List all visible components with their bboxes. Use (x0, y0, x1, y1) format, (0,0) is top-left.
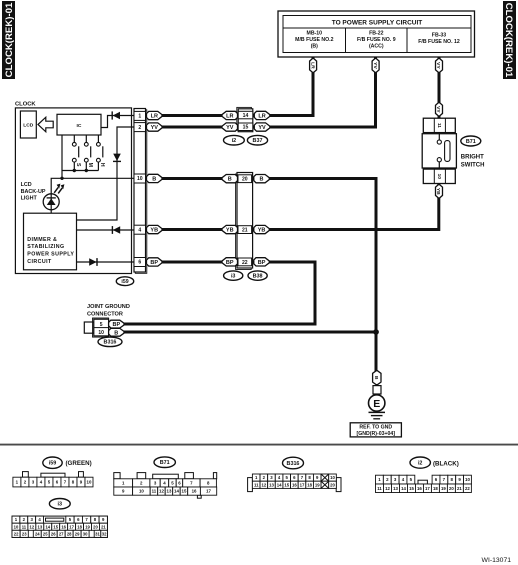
node switch common dots (73, 169, 76, 172)
wire label YB i3 side (222, 225, 238, 233)
wire label B joint connector (109, 328, 124, 336)
bright switch body B71 (422, 133, 456, 170)
bright switch top connector pin 11 (423, 118, 455, 132)
svg-text:30: 30 (83, 531, 88, 536)
wire YV: fuse FB-22 to clock pin 2 (162, 58, 376, 128)
power supply box: TO POWER SUPPLY CIRCUIT (278, 11, 475, 57)
svg-text:B71: B71 (466, 139, 476, 145)
svg-text:19: 19 (441, 486, 446, 491)
svg-text:FB-33: FB-33 (432, 33, 447, 39)
svg-text:22: 22 (14, 531, 19, 536)
wire dimmer to pin6 via diode D4 (77, 261, 135, 263)
wire label BP B38 side (254, 258, 269, 266)
svg-text:S: S (75, 163, 81, 167)
svg-text:10: 10 (139, 489, 144, 494)
svg-text:(BLACK): (BLACK) (433, 460, 459, 467)
svg-text:29: 29 (75, 531, 80, 536)
svg-text:STABILIZING: STABILIZING (27, 244, 64, 250)
svg-text:YB: YB (258, 228, 266, 234)
block arrow IC to LCD (38, 117, 53, 132)
wire label YB B38 side (254, 225, 269, 233)
dimmer and stabilizing power supply circuit box (24, 213, 77, 270)
switch H (97, 135, 106, 171)
svg-text:M/B FUSE NO.2: M/B FUSE NO.2 (295, 37, 333, 43)
wire LR: fuse MB-10 to clock pin 1 (162, 58, 313, 116)
svg-text:23: 23 (22, 531, 27, 536)
svg-text:13: 13 (393, 486, 398, 491)
svg-text:18: 18 (77, 524, 82, 529)
svg-text:CLOCK(REK)-01: CLOCK(REK)-01 (503, 3, 514, 78)
svg-text:17: 17 (69, 524, 74, 529)
svg-text:16: 16 (192, 489, 197, 494)
svg-text:14: 14 (277, 482, 282, 487)
svg-text:27: 27 (59, 531, 64, 536)
svg-text:MB-10: MB-10 (307, 31, 323, 37)
wire label YV i2 side (222, 123, 238, 131)
svg-text:B37: B37 (253, 138, 263, 144)
svg-text:11: 11 (22, 524, 27, 529)
svg-text:15: 15 (182, 489, 187, 494)
svg-text:B316: B316 (104, 340, 117, 346)
svg-text:JOINT GROUND: JOINT GROUND (87, 304, 130, 310)
svg-text:YB: YB (226, 228, 234, 234)
svg-text:B: B (260, 177, 264, 183)
inline connector i2-B37 housing (237, 107, 253, 131)
clock pin 10 (134, 174, 146, 183)
svg-text:14: 14 (174, 489, 179, 494)
svg-text:i3: i3 (58, 502, 63, 508)
svg-text:12: 12 (30, 524, 35, 529)
wire label LR below fuse box (309, 59, 316, 73)
svg-text:i59: i59 (49, 461, 57, 467)
svg-text:12: 12 (159, 489, 164, 494)
clock pin 2 (134, 123, 146, 132)
svg-text:B: B (228, 177, 232, 183)
svg-text:22: 22 (465, 486, 470, 491)
svg-text:13: 13 (269, 482, 274, 487)
svg-text:i2: i2 (418, 461, 423, 467)
switch S (72, 135, 81, 171)
wire label LR i2 side (222, 111, 238, 119)
svg-text:BACK-UP: BACK-UP (21, 189, 46, 195)
ground point E (369, 394, 385, 411)
pinout B316 (248, 474, 341, 492)
diode D3 (cathode toward dimmer) (112, 226, 120, 234)
inline connector i3-B38 housing (236, 173, 253, 270)
op IC box U1 (57, 114, 101, 135)
svg-text:CLOCK: CLOCK (15, 102, 36, 108)
svg-text:TO POWER SUPPLY CIRCUIT: TO POWER SUPPLY CIRCUIT (332, 20, 423, 27)
wire label BP pin6 (147, 258, 163, 266)
svg-text:E: E (373, 398, 380, 410)
wire label LR pin1 (147, 111, 163, 119)
svg-text:LIGHT: LIGHT (21, 195, 38, 201)
svg-text:22: 22 (242, 260, 248, 266)
wire label B at ground (373, 371, 381, 385)
svg-text:BRIGHT: BRIGHT (461, 154, 484, 160)
wire pin2 to dimmer circuit via diode D2 (77, 127, 135, 220)
wire BP: clock pin 6 to joint ground connector pin 5 (123, 262, 315, 324)
svg-text:16: 16 (61, 524, 66, 529)
label BRIGHT SWITCH (461, 154, 485, 168)
page title bar right: CLOCK(REK)-01 (503, 1, 516, 79)
LED: LCD back-up light (21, 182, 65, 210)
connector ref i3 pinout (49, 499, 70, 509)
svg-text:YB: YB (150, 228, 158, 234)
svg-text:10: 10 (98, 330, 104, 336)
connector ref B71 pinout (154, 457, 175, 468)
ground hatch (369, 412, 386, 418)
svg-text:BP: BP (258, 260, 266, 266)
svg-text:15: 15 (243, 125, 249, 131)
connector ref i3 (224, 271, 243, 280)
svg-text:18: 18 (433, 486, 438, 491)
connector ref B316 oval (98, 337, 122, 347)
svg-text:M: M (87, 163, 93, 167)
svg-text:LR: LR (226, 113, 233, 119)
pinout i2 (BLACK) (376, 475, 472, 492)
svg-text:31: 31 (95, 531, 100, 536)
connector ref i2 pinout (410, 457, 430, 468)
svg-text:12: 12 (261, 482, 266, 487)
svg-text:11: 11 (152, 489, 157, 494)
svg-text:LR: LR (258, 113, 265, 119)
svg-text:21: 21 (457, 486, 462, 491)
svg-text:B316: B316 (287, 461, 300, 467)
svg-text:13: 13 (167, 489, 172, 494)
svg-text:10: 10 (436, 174, 442, 180)
pin 22 (238, 258, 252, 266)
connector ref B37 (247, 135, 267, 145)
page title bar left: CLOCK(REK)-01 (2, 1, 15, 79)
wire switch common bus (62, 170, 98, 172)
svg-text:16: 16 (417, 486, 422, 491)
wire label YV below fuse box (372, 59, 379, 73)
wire label B pin10 (147, 174, 163, 182)
svg-text:LCD: LCD (21, 182, 32, 188)
svg-text:B71: B71 (160, 460, 170, 466)
node: switch common joins B wire (60, 177, 63, 180)
svg-text:18: 18 (307, 482, 312, 487)
svg-text:[GND(R)-03+04]: [GND(R)-03+04] (357, 431, 396, 437)
wire label YB below bright switch (435, 185, 442, 198)
svg-text:LR: LR (309, 62, 315, 69)
svg-text:i59: i59 (121, 279, 128, 285)
diode D2 (pointing down) (113, 154, 121, 162)
wire label B B38 side (254, 175, 269, 183)
svg-text:YV: YV (258, 125, 266, 131)
connector ref B38 (248, 271, 267, 280)
svg-text:(GREEN): (GREEN) (66, 460, 92, 467)
clock connector strip i59 (134, 109, 147, 274)
svg-text:11: 11 (436, 123, 442, 128)
svg-text:21: 21 (101, 524, 106, 529)
svg-text:10: 10 (330, 475, 335, 480)
svg-text:(B): (B) (311, 44, 318, 50)
svg-text:14: 14 (45, 524, 50, 529)
svg-text:20: 20 (449, 486, 454, 491)
switch M (84, 135, 93, 171)
wire label VY at bright switch (435, 103, 442, 116)
pin 15 (238, 123, 253, 131)
svg-text:(ACC): (ACC) (369, 44, 384, 50)
pin 14 (238, 111, 253, 119)
svg-text:B: B (152, 176, 156, 182)
svg-text:16: 16 (292, 482, 297, 487)
svg-text:i2: i2 (232, 138, 237, 144)
svg-text:25: 25 (43, 531, 48, 536)
svg-text:6: 6 (138, 260, 141, 266)
svg-text:10: 10 (137, 176, 143, 182)
svg-text:19: 19 (315, 482, 320, 487)
pinout i3 (12, 516, 107, 537)
svg-text:F/B FUSE NO. 12: F/B FUSE NO. 12 (418, 39, 460, 45)
connector ref i2 (224, 135, 245, 145)
svg-text:12: 12 (385, 486, 390, 491)
svg-text:B: B (114, 330, 118, 336)
joint ground connector B316 (84, 304, 130, 337)
connector ref B71 oval (461, 136, 481, 146)
svg-text:LR: LR (151, 114, 158, 120)
svg-text:32: 32 (102, 531, 107, 536)
clock pin 4 (134, 225, 146, 234)
svg-text:15: 15 (284, 482, 289, 487)
svg-text:BP: BP (112, 322, 120, 328)
svg-text:CLOCK(REK)-01: CLOCK(REK)-01 (4, 2, 15, 77)
svg-text:LCD: LCD (23, 123, 34, 129)
svg-text:28: 28 (67, 531, 72, 536)
svg-text:F/B FUSE NO. 9: F/B FUSE NO. 9 (357, 37, 396, 43)
svg-text:YV: YV (372, 62, 378, 69)
svg-text:20: 20 (93, 524, 98, 529)
svg-text:20: 20 (330, 482, 335, 487)
svg-text:WI-13071: WI-13071 (482, 557, 512, 564)
svg-text:10: 10 (14, 524, 19, 529)
svg-text:REF. TO GND: REF. TO GND (359, 425, 392, 431)
connector ref B316 pinout (283, 457, 304, 469)
wire label YB pin4 (147, 225, 163, 233)
wire label YV pin2 (147, 123, 163, 131)
wire VY: fuse FB-33 to bright switch pin 11 (438, 58, 441, 121)
wire label BP joint connector (109, 320, 124, 328)
wire B: joint ground connector pin 10 to ground junction (123, 331, 376, 334)
svg-text:15: 15 (53, 524, 58, 529)
wire YB: bright switch pin 10 to clock pin 4 (162, 183, 439, 230)
wire IC to diode D1 / pin 1 (101, 116, 134, 128)
clock unit box (15, 102, 132, 274)
wire label LR B37 side (254, 111, 269, 119)
svg-text:17: 17 (206, 489, 211, 494)
ground terminal box (373, 386, 381, 394)
svg-text:19: 19 (85, 524, 90, 529)
wire label VY below fuse box (435, 59, 442, 73)
svg-text:17: 17 (300, 482, 305, 487)
wire dimmer to pin4 via diode D3 (77, 229, 135, 231)
svg-text:YV: YV (151, 125, 159, 131)
connector ref i59 (116, 277, 133, 286)
svg-text:14: 14 (243, 113, 249, 119)
svg-text:CONNECTOR: CONNECTOR (87, 312, 123, 318)
svg-text:FB-22: FB-22 (369, 31, 384, 37)
svg-text:B: B (373, 376, 379, 380)
pinout B71 (114, 473, 217, 499)
wire IC common down-lead (61, 135, 63, 171)
LCD display (20, 111, 36, 138)
svg-text:POWER SUPPLY: POWER SUPPLY (27, 252, 74, 258)
wire B: clock pin 10 to ground junction (162, 179, 376, 372)
svg-text:SWITCH: SWITCH (461, 162, 485, 168)
clock pin 1 (134, 111, 146, 120)
svg-text:13: 13 (37, 524, 42, 529)
svg-text:24: 24 (35, 531, 40, 536)
svg-text:CIRCUIT: CIRCUIT (27, 259, 52, 265)
svg-text:11: 11 (254, 482, 259, 487)
svg-text:YV: YV (226, 125, 234, 131)
svg-text:11: 11 (377, 486, 382, 491)
svg-text:IC: IC (77, 123, 82, 129)
ref to gnd note (350, 423, 401, 437)
svg-text:i3: i3 (231, 274, 236, 280)
connector ref i59 pinout (43, 457, 62, 468)
pin 21 (238, 226, 252, 234)
svg-text:VY: VY (435, 106, 441, 113)
clock pin 6 (134, 258, 146, 267)
svg-text:BP: BP (150, 260, 158, 266)
wire label BP i3 side (222, 258, 238, 266)
svg-text:10: 10 (465, 477, 470, 482)
diode D1 (anode pin1 side, cathode to IC) (112, 111, 120, 119)
svg-text:17: 17 (425, 486, 430, 491)
svg-text:DIMMER &: DIMMER & (27, 237, 57, 243)
wire label B i3 side (222, 175, 238, 183)
diode D4 (cathode toward pin6) (89, 258, 97, 266)
svg-text:YB: YB (435, 188, 441, 195)
svg-text:21: 21 (242, 228, 248, 234)
separator line (0, 444, 518, 446)
svg-text:1: 1 (138, 114, 141, 120)
bright switch bottom connector pin 10 (423, 169, 455, 183)
wire label YV B37 side (254, 123, 269, 131)
svg-text:VY: VY (435, 62, 441, 69)
svg-text:5: 5 (100, 322, 103, 328)
svg-text:BP: BP (226, 260, 234, 266)
svg-text:20: 20 (242, 177, 248, 183)
svg-text:4: 4 (138, 227, 141, 233)
wire B: pin10 into clock, to LED and switch common (51, 178, 134, 213)
svg-text:10: 10 (87, 480, 92, 485)
pinout i59 (GREEN) (13, 472, 93, 487)
junction ground node (373, 329, 379, 335)
pin 20 (238, 175, 252, 183)
svg-text:14: 14 (401, 486, 406, 491)
svg-text:26: 26 (51, 531, 56, 536)
svg-text:B38: B38 (253, 274, 263, 280)
svg-text:H: H (99, 163, 105, 167)
svg-text:2: 2 (138, 125, 141, 131)
svg-text:15: 15 (409, 486, 414, 491)
